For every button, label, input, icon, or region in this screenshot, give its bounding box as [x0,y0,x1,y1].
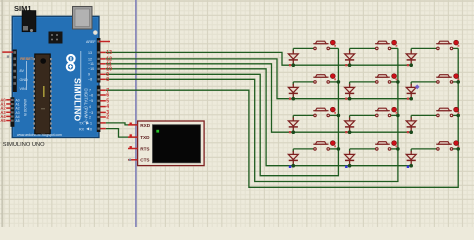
svg-text:RTS: RTS [140,146,149,151]
svg-text:RESET: RESET [20,56,34,61]
junction button S5 / column 2 [396,80,400,84]
svg-text:RXD: RXD [140,123,151,128]
svg-text:~5: ~5 [89,99,93,103]
button S7 actuator marker [330,107,336,114]
diode D3 cathode state marker (high) [407,64,409,66]
push button S7 [313,108,329,116]
svg-text:AREF: AREF [86,40,96,44]
junction diode D2 / row 1 [348,63,352,67]
svg-text:A5: A5 [16,119,20,123]
wire arduino RX(0) to terminal TXD [106,129,138,138]
svg-text:~3: ~3 [89,111,93,115]
pin 2 stub [100,116,106,118]
pin A3 stub [6,111,11,113]
sheet border line vertical [135,0,137,227]
pin 7 stub [100,89,106,91]
power pin silkscreen labels [20,69,29,91]
pin 9 stub [100,73,106,75]
pin 12 stub [100,58,106,60]
diode D11 cathode state marker (low) [345,166,348,169]
wire button S5 to column 2 [390,81,398,83]
diode D10 [288,149,298,166]
left header pads [11,51,16,122]
pin A2 stub [6,107,11,109]
diode D8 cathode state marker (high) [345,131,347,133]
svg-text:13: 13 [106,50,112,56]
header pin pads [97,40,99,129]
svg-text:SIMULINO UNO: SIMULINO UNO [3,142,45,148]
junction button S6 / column 3 [456,80,460,84]
wire diode D1 to button S1 [293,47,315,49]
junction button S7 / column 1 [337,114,341,118]
wire diode D11 to button S11 [350,148,377,150]
wire button S11 to column 2 [390,148,398,150]
wire button S7 to column 1 [328,114,338,116]
junction button S12 / column 3 [456,147,460,151]
microcontroller ATMEGA328 [33,54,52,134]
diode D5 [345,82,355,99]
pin A4 stub [6,115,11,117]
wire pin9 to keypad col1 [106,48,339,175]
push button S2 [375,41,391,49]
svg-text:www.arduino.cc blogspot.com: www.arduino.cc blogspot.com [17,133,62,137]
USB connector [73,7,93,30]
svg-text:7: 7 [89,89,91,93]
terminal CTS stub [128,159,138,161]
button S3 actuator marker [454,40,460,47]
terminal RTS stub [128,148,138,150]
junction diode D9 / row 3 [409,130,413,134]
svg-text:~11: ~11 [88,62,94,66]
push button S11 [375,142,391,150]
junction button S8 / column 2 [396,114,400,118]
junction diode D7 / row 3 [292,130,296,134]
wire pin7 to keypad col3 [106,48,458,187]
svg-text:~10: ~10 [88,67,94,71]
diode D6 cathode state marker (high) [407,98,409,100]
diode D3 [406,48,416,65]
button S9 actuator marker [454,107,460,114]
pin 6 stub [100,94,106,96]
push button S1 [313,41,329,49]
wire pin12 to keypad row2 [106,59,411,99]
svg-text:~6: ~6 [89,93,93,97]
pin A1 stub [6,103,11,105]
arduino board SIM1 (SIMULINO UNO) [12,16,99,137]
svg-text:~8: ~8 [88,78,92,82]
diode D2 cathode state marker (high) [345,64,347,66]
RTS state marker [130,146,132,148]
diode D1 cathode state marker (high) [289,64,291,66]
wire diode D5 to button S5 [350,81,377,83]
svg-text:2: 2 [106,115,109,121]
junction diode D12 / row 4 [409,164,413,168]
button S11 actuator marker [392,141,398,147]
diode D9 cathode state marker (high) [407,131,409,133]
power header [13,50,17,93]
wire button S2 to column 2 [390,47,398,49]
CTS state marker [129,159,131,161]
diode D11 [345,149,355,166]
terminal TXD stub [128,136,138,138]
svg-text:TXD: TXD [140,135,150,140]
power jack [22,11,36,33]
push button S3 [436,41,453,49]
svg-text:A5: A5 [0,118,6,123]
svg-text:CTS: CTS [140,158,149,163]
wire pin8 to keypad col2 [106,48,398,181]
svg-text:8: 8 [106,77,109,83]
diode D4 [288,82,298,99]
button S12 actuator marker [454,141,460,147]
button S10 actuator marker [330,141,336,147]
pin 11 stub [100,63,106,65]
virtual terminal VT1 [138,121,205,166]
analog header [10,97,14,127]
pin A0 stub [6,99,11,101]
RXD state marker [130,123,132,125]
diode D2 [345,48,355,65]
pin RESET floating marker [7,55,9,57]
junction button S10 / column 1 [337,147,341,151]
junction button S11 / column 2 [396,147,400,151]
svg-text:13: 13 [88,51,92,55]
push button S6 [436,75,453,83]
diode D12 [406,149,416,166]
pin 1 TX stub [100,122,106,124]
wire diode D2 to button S2 [350,47,377,49]
svg-text:8V: 8V [20,69,25,73]
pin 0 RX stub [100,128,106,130]
wire diode D9 to button S9 [411,114,438,116]
svg-text:12: 12 [88,57,92,61]
diode D12 cathode state marker (low) [407,166,410,169]
push button S8 [375,108,391,116]
TX RX silkscreen [79,122,92,132]
push button S9 [436,108,453,116]
ICSP header [49,32,63,44]
terminal RXD stub [128,124,138,126]
svg-text:1: 1 [90,122,92,126]
wire button S6 to column 3 [452,81,459,83]
button S8 actuator marker [392,107,398,114]
wire diode D10 to button S10 [293,148,315,150]
sheet border line left [1,0,3,227]
diode D5 cathode state marker (high) [345,98,347,100]
push button S5 [375,75,391,83]
wire button S9 to column 3 [452,114,459,116]
svg-text:0: 0 [90,127,92,131]
wire pin11 to keypad row3 [106,64,411,132]
svg-text:DIGITAL (PWM~): DIGITAL (PWM~) [84,88,89,123]
wire arduino TX(1) to terminal RXD [106,123,138,125]
junction diode D10 / row 4 [292,164,296,168]
diode D10 cathode state marker (low) [289,166,292,169]
diode D8 [345,115,355,132]
pin 13 stub [100,51,106,53]
wire diode D4 to button S4 [293,81,315,83]
pin 4 stub [100,106,106,108]
terminal cursor [156,130,159,133]
wire diode D7 to button S7 [293,114,315,116]
button S2 actuator marker [392,40,398,47]
svg-text:TX: TX [79,122,84,126]
junction diode D8 / row 3 [348,130,352,134]
wire button S8 to column 2 [390,114,398,116]
wire button S12 to column 3 [452,148,459,150]
analog silkscreen labels [16,98,20,123]
diode D6 [406,82,416,99]
svg-text:4: 4 [89,105,91,109]
TXD state marker [130,134,132,136]
mounting hole [93,30,97,34]
svg-text:2: 2 [89,115,91,119]
svg-text:ANALOG IN: ANALOG IN [23,99,27,117]
pin 3 stub [100,111,106,113]
pin A5 stub [6,120,11,122]
pin 10 stub [100,68,106,70]
diode D7 cathode state marker (high) [289,131,291,133]
svg-text:GND: GND [20,78,29,82]
pin 5 stub [100,100,106,102]
simulino logo [67,55,75,71]
silkscreen pin names [86,40,96,119]
junction button S9 / column 3 [456,114,460,118]
wire button S3 to column 3 [452,47,459,49]
junction diode D11 / row 4 [348,164,352,168]
junction diode D1 / row 1 [292,63,296,67]
diode D9 [406,115,416,132]
diode D1 [288,48,298,65]
wire diode D8 to button S8 [350,114,377,116]
pin 8 stub [100,78,106,80]
digital silkscreen box [80,51,82,117]
digital header upper [97,38,101,83]
digital header lower [97,86,101,133]
wire button S1 to column 1 [328,47,338,49]
svg-text:RX: RX [79,127,85,131]
diode D4 cathode state marker (high) [289,98,291,100]
wire diode D12 to button S12 [411,148,438,150]
svg-text:VIN: VIN [20,87,26,91]
probe marker at diode D6 [415,84,420,89]
wire diode D6 to button S6 [411,81,438,83]
junction diode D6 / row 2 [409,97,413,101]
pin RESET stub [2,51,13,53]
power silkscreen box [26,61,28,90]
junction diode D5 / row 2 [348,97,352,101]
wire button S10 to column 1 [328,148,338,150]
wire button S4 to column 1 [328,81,338,83]
push button S10 [313,142,329,150]
button S4 actuator marker [330,74,336,81]
push button S12 [436,142,453,150]
svg-text:9: 9 [88,73,90,77]
wire diode D3 to button S3 [411,47,438,49]
button S5 actuator marker [392,74,398,81]
wire pin13 to keypad row1 [106,52,411,65]
button S1 actuator marker [330,40,336,47]
pin AREF stub [99,41,110,43]
junction button S4 / column 1 [337,80,341,84]
junction diode D3 / row 1 [409,63,413,67]
push button S4 [313,75,329,83]
junction diode D4 / row 2 [292,97,296,101]
button S6 actuator marker [454,74,460,81]
diode D7 [288,115,298,132]
wire pin10 to keypad row4 [106,69,411,166]
